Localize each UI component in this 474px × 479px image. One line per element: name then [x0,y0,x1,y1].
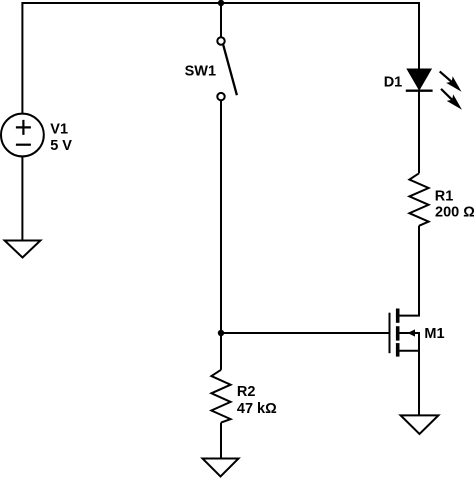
ground (left) [5,241,41,258]
switch SW1 [217,37,237,100]
wire top rail right (node A to D1 branch) [221,3,419,70]
node A junction dot [218,0,224,6]
svg-text:R1: R1 [435,189,454,205]
wire V1 to ground [21,156,23,240]
wire D1 to R1 [418,90,420,174]
svg-text:R2: R2 [237,384,256,400]
resistor R1 [409,173,428,226]
svg-text:47 kΩ: 47 kΩ [237,401,277,417]
wire top rail left (V1 to node A) [22,3,221,114]
node B junction dot [218,330,224,336]
wire node B to R2 [220,333,222,370]
MOSFET M1 [390,309,420,357]
svg-text:V1: V1 [50,121,68,137]
svg-text:D1: D1 [384,75,403,91]
wire R2 to ground [220,423,222,459]
wire M1 source to ground [418,351,420,416]
svg-text:SW1: SW1 [185,63,216,79]
wire node A to SW1 [220,3,222,37]
svg-text:M1: M1 [424,326,444,342]
resistor R2 [211,370,230,423]
wire gate to node B [221,332,390,334]
ground (right) [401,415,439,434]
wire SW1 to node B [220,100,222,333]
LED D1 [406,69,462,110]
voltage source V1 [1,114,44,157]
svg-text:5 V: 5 V [50,138,72,154]
svg-text:200 Ω: 200 Ω [435,205,474,221]
wire R1 to M1 drain [400,226,420,316]
ground (middle) [203,459,239,477]
